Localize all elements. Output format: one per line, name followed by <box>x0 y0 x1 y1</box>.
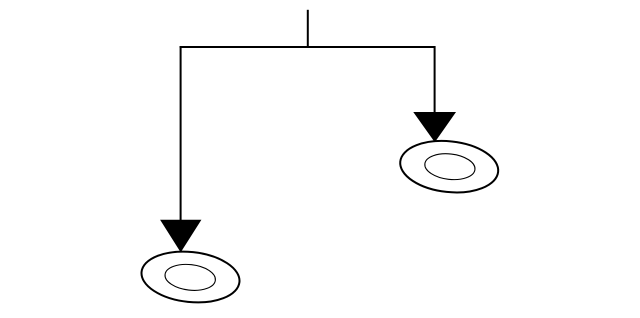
wire: horizontal bus <box>180 46 436 48</box>
wire: top vertical stem <box>307 10 309 47</box>
node: right torus inner ellipse <box>423 151 476 182</box>
wire: left vertical drop <box>180 46 182 221</box>
arrowhead right <box>415 113 454 140</box>
node: right torus outer ellipse <box>398 136 501 197</box>
wire: right vertical drop <box>434 46 436 113</box>
arrowhead left <box>162 221 200 251</box>
node: left torus outer ellipse <box>139 247 242 307</box>
node: left torus inner ellipse <box>164 262 217 293</box>
